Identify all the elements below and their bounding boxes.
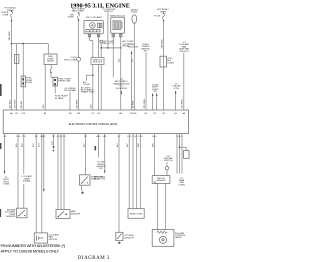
svg-text:FUSE: FUSE [68,16,74,18]
svg-text:VALVE: VALVE [175,236,182,239]
svg-text:465 DK: 465 DK [21,100,23,108]
svg-text:DIST COIL ASM: DIST COIL ASM [86,16,102,19]
svg-text:AND START: AND START [72,9,85,12]
svg-text:SW SIGNAL: SW SIGNAL [64,89,77,92]
svg-text:FUSE: FUSE [154,15,160,17]
svg-text:FUSE: FUSE [131,12,137,14]
svg-text:CKT: CKT [153,91,158,93]
svg-text:439 PNK: 439 PNK [77,99,79,108]
svg-text:450 BLK: 450 BLK [9,99,11,108]
svg-text:APPLY TO 1993-95 MODELS ONLY: APPLY TO 1993-95 MODELS ONLY [1,249,60,254]
svg-text:SIG: SIG [144,51,148,53]
svg-text:IN TANK: IN TANK [55,97,64,100]
svg-text:SWITCH: SWITCH [49,239,58,241]
svg-text:SENSOR: SENSOR [124,237,134,239]
svg-text:CONN: CONN [83,84,90,86]
svg-text:TRANS ONLY: TRANS ONLY [81,90,95,93]
svg-text:CTRL: CTRL [174,88,180,90]
svg-text:CONN: CONN [178,184,185,186]
svg-text:CIRCUIT): CIRCUIT) [179,51,189,53]
svg-text:SWITCH: SWITCH [104,11,113,13]
svg-text:SENSOR: SENSOR [156,180,166,182]
svg-text:REQUEST: REQUEST [128,46,139,48]
svg-text:335 GRN: 335 GRN [144,99,146,109]
svg-text:120 GRY: 120 GRY [14,99,16,108]
svg-text:SWITCH: SWITCH [164,160,173,162]
svg-text:ELECTRONIC CONTROL MODULE (ECM: ELECTRONIC CONTROL MODULE (ECM) [69,123,117,126]
svg-text:SWITCH: SWITCH [91,179,100,181]
svg-text:CONN: CONN [3,184,10,186]
svg-text:CONN: CONN [167,62,174,64]
svg-text:MODULE: MODULE [93,62,103,64]
svg-text:340 ORN: 340 ORN [161,39,163,49]
svg-text:PIN NUMBERS WITH AN ASTERISK (: PIN NUMBERS WITH AN ASTERISK (*) [1,243,66,248]
svg-text:FUSE: FUSE [26,82,32,84]
svg-text:SENSOR: SENSOR [6,216,16,218]
svg-text:440 ORN: 440 ORN [9,31,11,41]
svg-text:CKT: CKT [99,168,104,170]
svg-text:SIGNAL: SIGNAL [23,180,32,183]
svg-text:DIAGRAM 3: DIAGRAM 3 [78,256,110,261]
svg-text:FUSE: FUSE [3,14,9,16]
svg-text:ENG CONN: ENG CONN [64,59,76,61]
svg-text:SOLENOID: SOLENOID [116,88,128,90]
svg-text:RELAY: RELAY [47,60,55,63]
svg-text:39 PNK: 39 PNK [132,100,134,108]
svg-text:INJECTORS: INJECTORS [130,214,143,216]
svg-text:532 RED: 532 RED [182,99,184,108]
svg-text:SENSOR: SENSOR [71,213,81,215]
svg-text:PRESS TAP: PRESS TAP [58,80,71,83]
